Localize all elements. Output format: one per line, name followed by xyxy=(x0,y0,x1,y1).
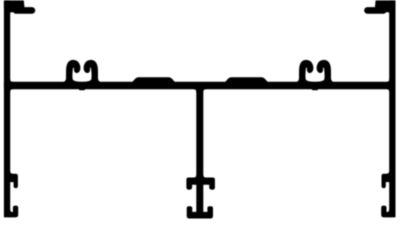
top-left tab xyxy=(5,1,24,8)
top-right tab xyxy=(376,1,395,8)
fillet wall/hook arm xyxy=(10,171,13,174)
main horizontal web (band) xyxy=(5,82,395,88)
left snap claw xyxy=(64,61,100,90)
fillet wall/foot xyxy=(387,210,390,213)
right half outer frame (mirror of left) xyxy=(365,1,395,217)
left hook (arm + down stub) xyxy=(10,174,18,187)
right snap claw xyxy=(297,61,333,90)
right hook (arm + down stub) xyxy=(382,174,390,187)
top-left arm xyxy=(10,8,35,13)
claw left prong xyxy=(64,61,81,83)
fillet arm/wall xyxy=(10,12,11,13)
fillet centre wall/upper crossbar right xyxy=(203,175,206,178)
left half outer frame xyxy=(5,1,35,217)
fillet wall/band top xyxy=(387,79,390,82)
left foot (bottom arm + up stub) xyxy=(10,206,18,217)
nub below band xyxy=(313,89,318,90)
fillet centre wall/upper crossbar left xyxy=(194,175,197,178)
right foot (bottom arm + up stub) xyxy=(382,206,390,217)
claw right prong xyxy=(316,61,333,83)
top-right arm xyxy=(365,8,390,13)
fillet wall/hook arm xyxy=(387,171,390,174)
fillet wall/foot xyxy=(10,210,13,213)
fillet centre wall/band left xyxy=(194,89,197,92)
centre upper crossbar with down stubs xyxy=(187,178,214,189)
centre wall xyxy=(197,89,203,213)
fillet wall/band bottom xyxy=(10,89,13,92)
left glazing bump xyxy=(133,78,175,83)
right glazing bump xyxy=(226,78,268,83)
nub below band xyxy=(80,89,85,90)
claw left prong xyxy=(297,61,314,83)
right wall xyxy=(390,1,395,217)
fillet arm/wall xyxy=(389,12,390,13)
fillet centre wall/band right xyxy=(203,89,206,92)
fillet wall/band top xyxy=(10,79,13,82)
left wall xyxy=(5,1,10,217)
centre bottom T foot with up stubs xyxy=(187,207,212,218)
fillet wall/band bottom xyxy=(387,89,390,92)
claw right prong xyxy=(83,61,100,83)
